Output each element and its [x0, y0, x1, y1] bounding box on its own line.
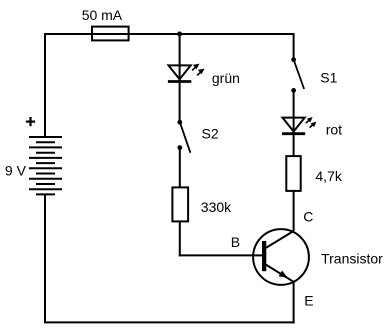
wire emitter to bottom rail: [293, 282, 295, 324]
wire base horizontal: [179, 254, 262, 256]
svg-text:50 mA: 50 mA: [82, 7, 123, 23]
wire S1 to LED rot: [293, 91, 295, 133]
switch S1: [291, 57, 296, 62]
resistor R2 330k: [172, 187, 188, 221]
LED D2 light arrows: [306, 117, 317, 128]
wire resistor 330k to base corner: [179, 221, 181, 256]
LED D2 rot: [282, 118, 305, 134]
wire middle branch LED to S2: [179, 66, 181, 121]
wire LED rot to resistor 4,7k: [293, 134, 295, 157]
svg-text:S1: S1: [320, 69, 337, 85]
LED D1 gruen: [168, 65, 191, 81]
svg-text:S2: S2: [202, 126, 219, 142]
svg-text:9 V: 9 V: [5, 163, 27, 179]
resistor R1 4,7k: [286, 156, 300, 191]
wire resistor 4,7k to collector: [293, 191, 295, 231]
fuse 50 mA: [92, 27, 129, 41]
svg-text:Transistor: Transistor: [321, 250, 383, 266]
svg-text:4,7k: 4,7k: [315, 168, 342, 184]
transistor Q1: [253, 229, 309, 285]
node junction dot: [177, 32, 182, 37]
wire battery bottom to bottom rail: [44, 194, 46, 322]
wire bottom horizontal: [44, 321, 295, 323]
battery plus sign: [26, 117, 35, 126]
wire middle branch top: [179, 34, 181, 66]
battery B1 9V: [29, 137, 62, 194]
LED D1 light arrows: [192, 64, 204, 76]
svg-text:rot: rot: [326, 122, 342, 138]
switch S2: [177, 120, 182, 125]
svg-text:330k: 330k: [201, 199, 232, 215]
svg-text:E: E: [304, 293, 313, 309]
svg-text:C: C: [303, 209, 313, 225]
wire top horizontal: [44, 33, 294, 35]
wire right branch top: [293, 33, 295, 58]
wire left vertical to battery: [44, 33, 46, 137]
svg-text:B: B: [231, 234, 240, 250]
wire S2 to resistor 330k: [179, 149, 181, 188]
svg-text:grün: grün: [212, 70, 240, 86]
